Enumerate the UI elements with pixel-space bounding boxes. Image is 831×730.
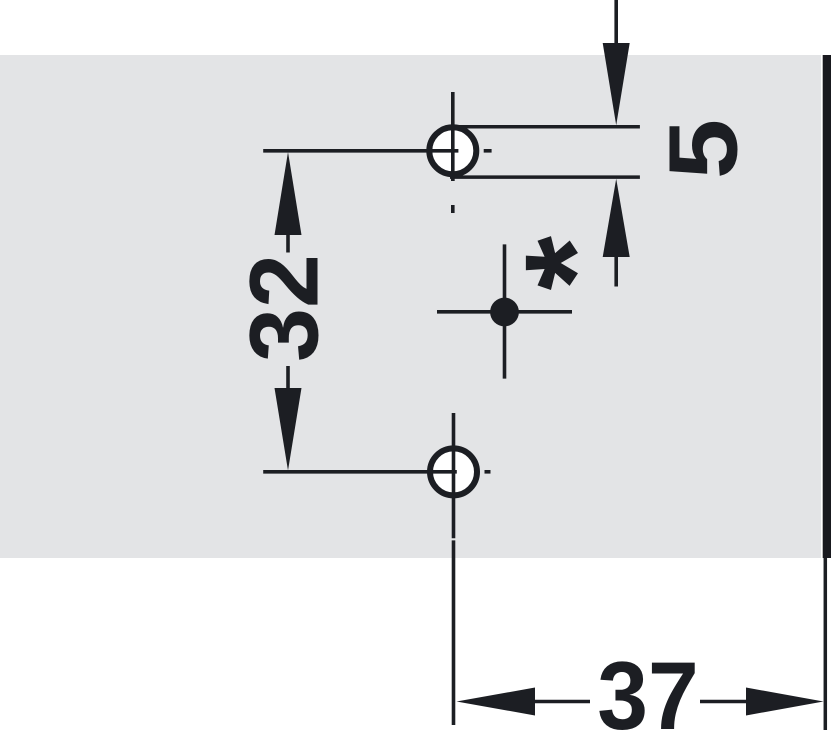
hole H1 (top drill hole) [429,127,476,174]
board edge bar [823,55,831,558]
dim 32 arrow up [275,152,302,235]
hole H2 crosshair overlay vertical [452,448,456,496]
hole H1 crosshair overlay vertical [451,127,455,181]
dim 37 arrow left [457,688,536,716]
center mark vertical line [503,244,507,378]
panel (grey board face) [0,55,821,558]
center mark dot [490,298,519,327]
dim 32 line upper segment [286,233,290,253]
dim 37 line right segment [700,700,748,704]
dim 37 line left segment [533,700,590,704]
dim 5 leader line top [614,0,618,46]
dim 32 line lower segment [286,366,290,390]
hole H1 centerline dash right [484,149,492,153]
hole H1 centerline vertical [451,92,455,181]
hole H2 centerline vertical upper [452,413,456,538]
hole H2 (bottom drill hole) [430,448,477,495]
hole H2 centerline vertical lower / extension line 37 left [452,540,456,725]
dim 5 leader line bottom [614,254,618,287]
extension line 37 right [824,558,828,730]
dim 5 extension line top [450,125,640,129]
svg-text:5: 5 [649,119,757,179]
dim 5 arrow up [603,179,630,257]
dim 37 arrow right [746,688,824,716]
hole H1 crosshair overlay horizontal [429,149,458,153]
svg-text:32: 32 [229,254,338,362]
svg-text:*: * [495,235,652,290]
hole H2 centerline horizontal / extension line 32 bottom [263,470,457,474]
dim 32 arrow down [275,388,302,471]
svg-text:37: 37 [597,641,698,730]
hole H1 centerline horizontal / extension line 32 top [263,149,458,153]
hole H2 centerline dash right [485,470,491,474]
hole H1 centerline dash below [451,205,455,213]
dim 5 arrow down [603,43,630,125]
dim 5 extension line bottom [450,175,640,179]
hole H2 crosshair overlay horizontal [430,470,457,474]
center mark horizontal line [437,310,572,314]
